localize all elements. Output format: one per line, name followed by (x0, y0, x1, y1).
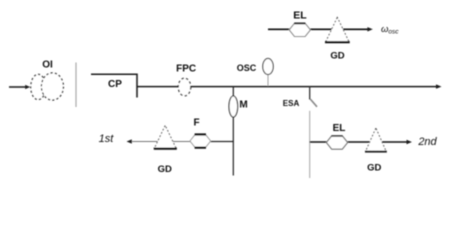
svg-text:1st: 1st (99, 133, 115, 145)
svg-text:FPC: FPC (176, 64, 196, 75)
svg-text:OI: OI (42, 60, 53, 71)
svg-text:ωosc: ωosc (381, 24, 399, 36)
svg-text:EL: EL (293, 10, 307, 22)
svg-text:GD: GD (158, 164, 172, 175)
svg-text:OSC: OSC (237, 63, 257, 73)
svg-text:EL: EL (333, 123, 346, 134)
svg-text:M: M (239, 100, 247, 111)
svg-text:GD: GD (367, 163, 381, 174)
svg-text:2nd: 2nd (417, 136, 437, 148)
svg-text:GD: GD (330, 50, 344, 61)
svg-text:F: F (193, 118, 199, 129)
svg-text:CP: CP (108, 79, 122, 90)
svg-text:ESA: ESA (283, 99, 300, 108)
